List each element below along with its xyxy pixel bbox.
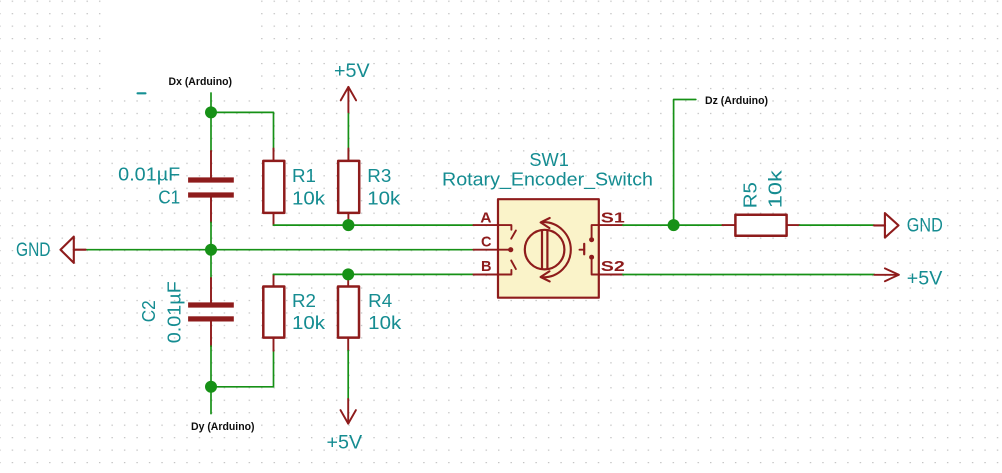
power symbol GND left	[61, 237, 86, 263]
svg-text:0.01µF: 0.01µF	[164, 281, 184, 343]
power symbol GND right	[874, 213, 899, 238]
svg-text:Dy (Arduino): Dy (Arduino)	[191, 421, 255, 433]
junction R3 bottom	[342, 219, 354, 231]
svg-text:GND: GND	[16, 240, 51, 261]
pin S2	[599, 274, 623, 276]
power symbol +5V right	[874, 268, 899, 281]
svg-text:Dx (Arduino): Dx (Arduino)	[169, 76, 233, 88]
capacitor C2	[188, 278, 234, 346]
svg-text:SW1: SW1	[529, 150, 569, 170]
resistor R5	[722, 215, 799, 236]
wire S2 to +5V right	[623, 274, 874, 276]
resistor R4	[338, 274, 359, 350]
wire Dx vertical into junction	[210, 93, 212, 152]
svg-text:0.01µF: 0.01µF	[118, 165, 180, 185]
svg-text:GND: GND	[907, 216, 943, 237]
encoder common contact dot	[508, 247, 513, 252]
svg-text:Dz (Arduino): Dz (Arduino)	[705, 95, 768, 107]
encoder rotor slot	[541, 231, 543, 268]
svg-text:10k: 10k	[766, 169, 786, 208]
svg-text:+5V: +5V	[327, 433, 363, 454]
svg-text:10k: 10k	[292, 189, 326, 209]
arc arrowhead bottom	[541, 271, 550, 281]
svg-text:R1: R1	[292, 166, 316, 186]
wire S1 to junction and R5	[623, 224, 723, 226]
svg-text:C2: C2	[139, 300, 159, 322]
svg-text:R5: R5	[741, 182, 761, 208]
wire R4 bottom to +5V	[347, 351, 349, 399]
svg-text:R4: R4	[368, 291, 392, 311]
junction C2/Dy node	[205, 381, 217, 393]
junction Dz node	[668, 219, 680, 231]
svg-text:10k: 10k	[292, 313, 326, 333]
svg-text:A: A	[480, 210, 491, 227]
power symbol +5V top	[341, 87, 356, 112]
wire R2 top rail to encoder pin B	[274, 273, 474, 275]
svg-text:R3: R3	[367, 166, 391, 186]
wire Dx junction to R1 top	[211, 112, 274, 149]
arc arrowhead top	[541, 218, 550, 228]
wire GND rail to C2	[210, 250, 212, 279]
encoder push switch	[580, 225, 599, 274]
wire Dz vertical	[674, 100, 696, 226]
encoder rotor circle	[525, 230, 565, 270]
junction R4 top	[342, 268, 354, 280]
capacitor C1	[188, 151, 234, 223]
wire C2 bottom to Dy junction	[210, 346, 212, 414]
pin C	[473, 249, 498, 251]
pin S1	[599, 224, 623, 226]
resistor R2	[263, 274, 284, 350]
wire C1 bottom to GND rail	[210, 222, 212, 249]
svg-text:B: B	[481, 258, 492, 275]
wire GND rail horizontal	[86, 249, 474, 251]
power symbol +5V bottom	[341, 399, 356, 424]
resistor R3	[338, 112, 359, 225]
svg-text:+5V: +5V	[334, 61, 370, 82]
pin A	[473, 224, 498, 226]
resistor R1	[263, 149, 284, 226]
wire R1 bottom rail to encoder pin A	[274, 224, 474, 226]
push switch contact dots	[589, 237, 594, 242]
stray teal mark	[137, 92, 147, 94]
wire R5 to GND right	[800, 224, 874, 226]
svg-text:C: C	[481, 233, 492, 250]
svg-text:S2: S2	[601, 258, 625, 275]
encoder rotation arc	[543, 222, 571, 277]
svg-text:Rotary_Encoder_Switch: Rotary_Encoder_Switch	[442, 169, 653, 190]
svg-text:S1: S1	[601, 210, 625, 227]
junction C1/GND rail	[205, 244, 217, 256]
pin B	[473, 274, 498, 276]
encoder left contact structure	[498, 225, 516, 274]
svg-text:R2: R2	[292, 291, 316, 311]
wire junction to R2 bottom	[211, 351, 274, 387]
svg-text:C1: C1	[158, 187, 180, 207]
svg-text:10k: 10k	[367, 189, 401, 209]
rotary encoder SW1 body	[498, 199, 599, 298]
junction Dx node	[205, 106, 217, 118]
white overlay patch top-left	[110, 0, 259, 92]
svg-text:+5V: +5V	[907, 268, 943, 289]
svg-text:10k: 10k	[368, 313, 402, 333]
